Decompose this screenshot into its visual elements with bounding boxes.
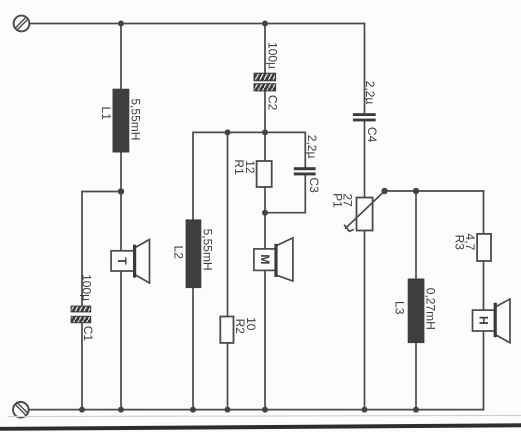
svg-text:100µ: 100µ [79, 274, 93, 301]
svg-text:M: M [258, 254, 272, 264]
svg-text:C4: C4 [365, 127, 379, 143]
inductor L3 [392, 279, 437, 344]
svg-text:H: H [477, 316, 491, 325]
wire: T-branch to C1 column [82, 192, 121, 307]
svg-text:L3: L3 [392, 301, 406, 315]
node: bottom rail / R2 [225, 407, 231, 413]
capacitor C1 (electrolytic 100u) [71, 274, 95, 341]
node: mid rail / R2 [225, 129, 231, 135]
inductor L2 [171, 219, 214, 288]
scan artifact line above bottom bar [8, 415, 521, 416]
wire: C2 top lead (x=265) [264, 24, 266, 74]
wire: L1/T column (x=121) [120, 24, 122, 410]
node: top rail / L1 [118, 21, 124, 27]
node: top rail / C2 [262, 21, 268, 27]
svg-text:2,2µ: 2,2µ [363, 81, 377, 105]
node: P1 wiper / rail [381, 188, 387, 194]
wire: C4 to P1 and P1 to bottom rail (x=364.5) [364, 121, 366, 409]
svg-text:C2: C2 [266, 95, 280, 111]
wire: mid horizontal rail y=132.4 [193, 132, 305, 409]
svg-text:R1: R1 [232, 159, 246, 175]
svg-text:5,55mH: 5,55mH [128, 98, 142, 140]
svg-text:R2: R2 [233, 319, 247, 335]
speaker M (midrange) [254, 238, 293, 281]
speaker T (tweeter) [111, 240, 149, 284]
node: L1 / T-branch [118, 188, 124, 194]
node: mid rail / C2-R1 [262, 129, 268, 135]
wire: C1 bottom lead [81, 323, 83, 410]
inductor L1 [99, 89, 142, 153]
node: bottom rail / T [118, 407, 124, 413]
svg-text:2,2µ: 2,2µ [305, 135, 319, 159]
capacitor C2 (electrolytic 100u) [254, 42, 280, 111]
wire: R2 column (x=227.5) [227, 132, 229, 409]
capacitor C4 (2.2u) [353, 81, 379, 143]
potentiometer P1 (27) [331, 191, 385, 231]
terminal J2 (bottom-left input) [13, 402, 29, 418]
svg-text:C3: C3 [307, 177, 321, 193]
svg-text:L1: L1 [99, 107, 113, 121]
node: bottom rail / L3 [413, 407, 419, 413]
wire: bottom rail from J2 to H-speaker column [29, 191, 484, 410]
terminal J1 (top-left input) [14, 16, 30, 32]
bottom border bar [0, 423, 521, 431]
node: bottom rail / C1 [79, 407, 85, 413]
svg-text:P1: P1 [331, 193, 345, 208]
svg-text:5,55mH: 5,55mH [201, 229, 215, 271]
node: bottom rail / M [262, 407, 268, 413]
resistor R1 (12) [232, 159, 272, 187]
svg-text:C1: C1 [81, 326, 95, 342]
wire: L3 column (x=416) [415, 191, 417, 410]
wire: top rail from J1 to C4 drop [30, 24, 365, 114]
speaker H (woofer) [473, 299, 511, 343]
node: bottom rail / L2 [190, 407, 196, 413]
capacitor C3 (2.2u) [294, 135, 321, 193]
svg-text:0,27mH: 0,27mH [424, 288, 438, 330]
svg-text:T: T [115, 257, 129, 265]
svg-text:R3: R3 [452, 235, 466, 251]
wire: C3 bottom loop [265, 175, 305, 212]
node: bottom rail / P1 [362, 407, 368, 413]
resistor R2 (10) [220, 317, 258, 343]
svg-text:L2: L2 [171, 246, 185, 260]
svg-text:100µ: 100µ [266, 42, 280, 69]
node: R1-C3 / M [262, 210, 268, 216]
wire: wiper rail y=191 [385, 190, 484, 192]
node: wiper rail / L3 [413, 188, 419, 194]
wire: C2 bottom lead / R1 / M column [264, 91, 266, 410]
resistor R3 (4.7) [452, 234, 491, 261]
